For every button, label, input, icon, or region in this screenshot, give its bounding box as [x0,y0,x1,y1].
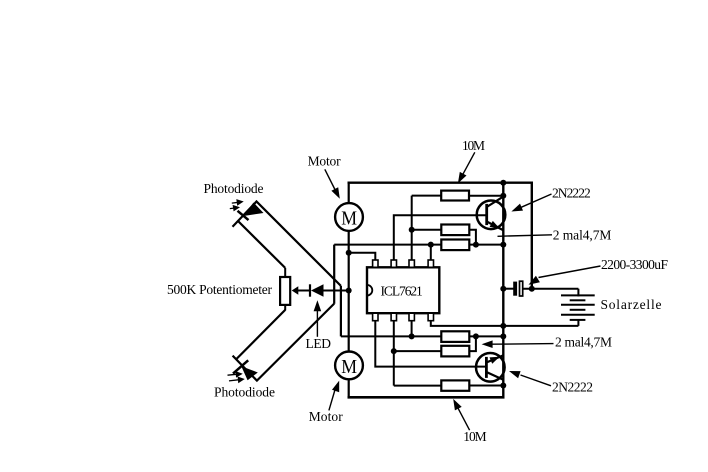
wire R2 right joining [469,230,476,245]
wire vertical A to lower photodiode [333,245,335,304]
node R2-R3 right junction [473,242,479,248]
node pin1-motor junction [346,250,352,256]
photodiode D2 cathode bar [233,360,248,373]
wire motor column upper [348,183,350,204]
photodiode D1 upper band [233,202,341,286]
op-amp U1 notch [367,285,372,296]
resistor R5 (4,7M upper pair) [441,331,469,342]
LED triangle [311,284,324,297]
wire vertical B from upper photodiode [340,286,342,337]
wire bottom line [348,396,505,399]
svg-text:2200-3300uF: 2200-3300uF [601,257,668,272]
wire 10M top right lead [469,195,503,197]
svg-text:500K Potentiometer: 500K Potentiometer [167,282,273,297]
svg-text:LED: LED [306,336,332,351]
LED cathode bar [309,284,311,296]
photodiode D1 light arrows [230,200,242,210]
svg-text:M: M [341,356,357,378]
wire pin5 to Q2 base [375,321,487,367]
photodiode D2 upper edge to pot [237,310,285,359]
wire R6 right joining [469,336,476,351]
op-amp U1 ICL7621 body [367,267,439,313]
photodiode D1 lower edge to pot [238,221,285,268]
photodiode D1 diode triangle [244,203,264,217]
wire motor column lower [348,379,350,399]
node R5-R6 right junction [473,333,479,339]
node LED-motor junction [346,288,352,294]
pot wiper arrow [292,286,299,294]
svg-text:ICL7621: ICL7621 [381,284,423,299]
wire wiper to LED [298,290,311,292]
node pin6 junction [391,348,397,354]
photodiode D2 diode triangle [241,366,257,380]
svg-text:2N2222: 2N2222 [552,379,593,394]
capacitor 2200-3300uF plates [513,282,517,296]
motor M2 bottom [335,352,363,380]
wire R2 left lead [412,229,442,231]
resistor R2 (4,7M upper) [441,225,469,236]
wire capacitor left lead [503,288,513,290]
transistor Q1 2N2222 top [477,197,506,231]
wire pin4 stub [430,245,432,260]
wire pin6 riser [393,321,395,386]
wire main vertical bus [502,183,504,398]
wire R5 left long line [341,335,442,337]
node capacitor - bus junction [500,286,506,292]
wire R5 right lead [469,335,503,337]
wire R3 right lead [469,244,503,246]
photodiode D2 light arrows [228,372,244,382]
wire pin2 to Q1 base [394,215,488,260]
wire capacitor right lead to battery [523,288,579,290]
node pin3-R2 junction [409,227,415,233]
wire 10M top left lead [412,195,442,197]
node pin4 junction [428,242,434,248]
node pin7 junction [409,333,415,339]
svg-text:Photodiode: Photodiode [204,181,264,196]
node 10M bottom - bus junction [500,383,506,389]
photodiode D1 cathode bar [238,211,249,220]
svg-text:2N2222: 2N2222 [552,185,591,200]
resistor 10M top [441,191,469,201]
photodiode D2 lower band [233,304,335,381]
svg-text:2 mal4,7M: 2 mal4,7M [555,335,612,350]
svg-text:Motor: Motor [309,409,344,424]
wire right box vertical [531,182,533,289]
wire pot top lead [284,268,286,277]
svg-text:Solarzelle: Solarzelle [601,297,662,312]
wire pin3 riser [411,196,413,261]
resistor R6 (4,7M lower pair) [441,346,469,357]
wire pin7 stub [411,321,413,337]
svg-text:Motor: Motor [308,154,342,169]
wire pin8 to battery bottom [431,321,579,326]
node capacitor - right box junction [529,286,535,292]
potentiometer 500K body [280,277,290,305]
svg-text:10M: 10M [463,429,487,444]
wire pin1 to motor column [349,253,376,261]
svg-text:Photodiode: Photodiode [214,385,275,400]
wire 10M bottom left lead [394,385,442,387]
resistor 10M bottom [441,380,469,390]
svg-text:2 mal4,7M: 2 mal4,7M [553,227,612,242]
wire pin4 net long line [334,244,441,246]
resistor R3 (4,7M lower) [441,240,469,251]
wire top supply line [348,181,532,183]
node top line - bus junction [500,180,506,186]
svg-text:10M: 10M [462,138,485,153]
wire pot bottom lead [284,305,286,311]
op-amp U1 pins [373,260,434,321]
node battery return - bus junction [500,323,506,329]
motor M1 top [335,203,363,231]
battery Solarzelle [561,289,595,326]
wire R6 left lead [394,350,442,352]
svg-text:M: M [341,208,357,230]
node R5 - bus junction [500,333,506,339]
node 10M top - bus junction [500,193,506,199]
wire motor column middle [348,230,350,352]
wire 10M bottom right lead [469,385,503,387]
wire LED to motor column [324,290,349,292]
node R3 - bus junction [500,242,506,248]
transistor Q2 2N2222 bottom [476,353,505,382]
